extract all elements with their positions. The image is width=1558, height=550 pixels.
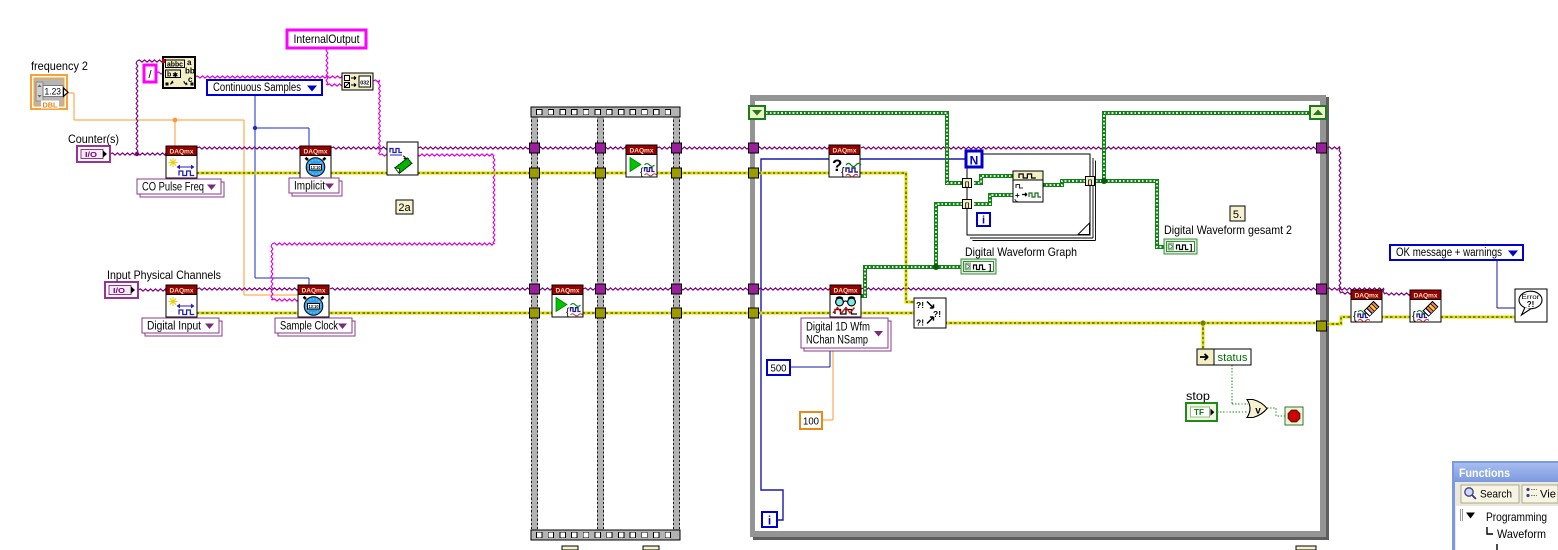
- svg-text:status: status: [1218, 352, 1248, 364]
- svg-text:032: 032: [360, 81, 369, 87]
- svg-text:Counter(s): Counter(s): [68, 132, 119, 146]
- svg-text:DAQmx: DAQmx: [1355, 293, 1379, 300]
- svg-text:?!: ?!: [1527, 300, 1535, 309]
- svg-text:500: 500: [771, 363, 787, 375]
- svg-text:]: ]: [989, 262, 992, 272]
- svg-text:DAQmx: DAQmx: [1414, 293, 1438, 300]
- svg-text:DAQmx: DAQmx: [170, 288, 194, 295]
- svg-text:DAQmx: DAQmx: [630, 148, 654, 155]
- svg-text:Digital Waveform gesamt 2: Digital Waveform gesamt 2: [1164, 223, 1292, 237]
- svg-text:DAQmx: DAQmx: [170, 149, 194, 156]
- svg-text:]: ]: [1190, 242, 1193, 252]
- svg-text:frequency 2: frequency 2: [31, 59, 88, 73]
- svg-text:?!: ?!: [916, 318, 924, 328]
- svg-text:5.: 5.: [1233, 209, 1242, 221]
- svg-text:Input Physical Channels: Input Physical Channels: [107, 268, 221, 282]
- svg-text:Vie: Vie: [1540, 489, 1556, 501]
- svg-text:13:10: 13:10: [311, 165, 321, 170]
- svg-text:{: {: [1353, 310, 1357, 322]
- svg-text:Sample Clock: Sample Clock: [280, 321, 338, 333]
- svg-text:[]: []: [1088, 179, 1092, 186]
- svg-text:+: +: [1015, 191, 1020, 200]
- svg-text:DAQmx: DAQmx: [833, 148, 857, 155]
- svg-text:DBL: DBL: [43, 101, 58, 110]
- svg-text:DAQmx: DAQmx: [834, 288, 858, 295]
- svg-text:Functions: Functions: [1459, 466, 1510, 480]
- svg-text:{: {: [841, 166, 845, 178]
- svg-text:Implicit: Implicit: [294, 181, 326, 193]
- svg-text:100: 100: [803, 416, 819, 428]
- svg-text:13:10: 13:10: [309, 304, 319, 309]
- svg-text:1.23: 1.23: [45, 87, 62, 98]
- svg-text:Digital Waveform Graph: Digital Waveform Graph: [965, 245, 1077, 259]
- svg-text:✱: ✱: [173, 71, 179, 79]
- svg-text:Search: Search: [1480, 489, 1512, 501]
- svg-text:Digital Input: Digital Input: [147, 321, 202, 333]
- svg-text:TF: TF: [1194, 407, 1204, 417]
- svg-text:v: v: [1255, 406, 1261, 417]
- svg-text:i: i: [768, 514, 771, 528]
- svg-text:[]: []: [965, 181, 969, 188]
- svg-text:{: {: [1412, 310, 1416, 322]
- svg-text:DAQmx: DAQmx: [556, 288, 580, 295]
- svg-text:i: i: [982, 215, 985, 227]
- svg-text:?!: ?!: [916, 300, 924, 310]
- svg-text:2a: 2a: [398, 202, 411, 214]
- svg-text:N: N: [970, 154, 979, 168]
- svg-text:[]: []: [965, 202, 969, 209]
- svg-text:OK message + warnings: OK message + warnings: [1396, 247, 1502, 259]
- svg-text:I/O: I/O: [85, 150, 97, 159]
- svg-text:Waveform: Waveform: [1497, 527, 1546, 541]
- svg-text:Digital 1D Wfm: Digital 1D Wfm: [806, 322, 870, 334]
- svg-text:DAQmx: DAQmx: [304, 149, 328, 156]
- svg-text:Programming: Programming: [1486, 510, 1547, 524]
- svg-text:b: b: [167, 72, 171, 79]
- svg-text:I/O: I/O: [113, 286, 125, 295]
- svg-text:abbc: abbc: [167, 62, 183, 69]
- svg-text:InternalOutput: InternalOutput: [294, 32, 361, 46]
- svg-text:NChan NSamp: NChan NSamp: [806, 335, 868, 347]
- svg-text:DAQmx: DAQmx: [302, 288, 326, 295]
- svg-text:CO Pulse Freq: CO Pulse Freq: [142, 182, 204, 194]
- svg-text:stop: stop: [1186, 389, 1210, 403]
- svg-text:Continuous Samples: Continuous Samples: [213, 82, 301, 94]
